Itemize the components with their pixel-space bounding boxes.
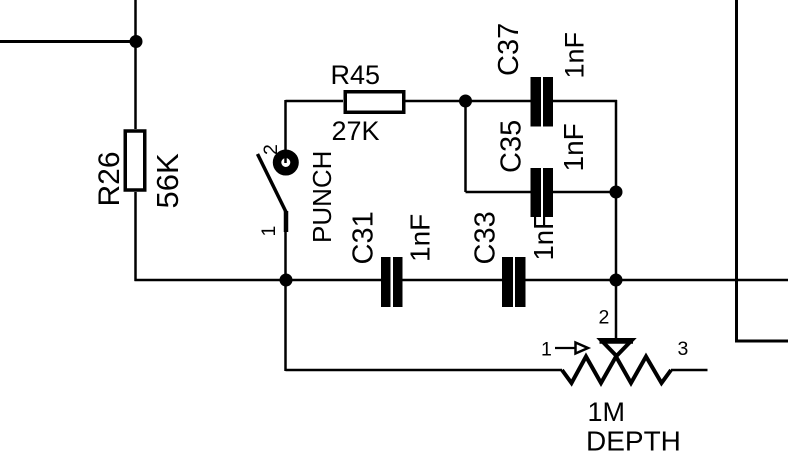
wire (615, 100, 618, 339)
wire (286, 100, 344, 103)
wire (135, 279, 382, 282)
node junction at C33 output (610, 274, 623, 287)
switch pin 1 contact (284, 211, 289, 232)
capacitor C35 (531, 168, 554, 217)
wire (526, 279, 788, 282)
wire (464, 101, 467, 192)
svg-text:DEPTH: DEPTH (586, 426, 681, 457)
svg-text:1nF: 1nF (560, 32, 590, 79)
wire (134, 0, 137, 129)
capacitor C37 (531, 77, 554, 127)
svg-text:C31: C31 (348, 211, 380, 264)
wire (466, 191, 531, 194)
IC box bottom edge (735, 340, 788, 343)
switch lever (258, 154, 287, 213)
IC box edge right (735, 0, 738, 341)
wire (284, 280, 287, 371)
svg-text:1: 1 (541, 339, 552, 361)
svg-text:2: 2 (260, 144, 282, 155)
wire (134, 192, 137, 281)
resistor R26 (125, 131, 145, 190)
svg-text:2: 2 (599, 307, 610, 329)
wire (553, 100, 617, 103)
wire (0, 40, 136, 43)
svg-text:1nF: 1nF (528, 213, 559, 260)
capacitor C31 (381, 257, 403, 307)
svg-text:C35: C35 (496, 120, 528, 173)
svg-text:R45: R45 (331, 60, 381, 90)
wire (406, 100, 531, 103)
svg-text:1M: 1M (588, 397, 626, 427)
svg-text:PUNCH: PUNCH (307, 151, 337, 243)
node junction switch bottom (280, 274, 293, 287)
node junction top-left (130, 35, 143, 48)
svg-text:27K: 27K (332, 116, 380, 146)
wire (671, 369, 708, 372)
potentiometer wiper arrow (601, 340, 632, 356)
svg-text:1: 1 (258, 226, 280, 237)
resistor R45 (345, 92, 404, 113)
node junction right of R45 (459, 95, 472, 108)
node junction C35 right (610, 186, 623, 199)
wire (553, 191, 616, 194)
wire (284, 100, 287, 163)
capacitor C33 (502, 257, 526, 307)
svg-text:1nF: 1nF (558, 123, 589, 171)
switch S PUNCH pin 2 terminal (277, 154, 295, 172)
svg-text:56K: 56K (150, 153, 185, 208)
potentiometer VR 1M DEPTH (562, 357, 671, 384)
pin 1 arrow marker (555, 347, 576, 349)
svg-text:3: 3 (678, 338, 689, 360)
svg-text:1nF: 1nF (405, 214, 436, 262)
wire (403, 279, 503, 282)
svg-text:C37: C37 (493, 23, 525, 76)
svg-text:R26: R26 (93, 151, 126, 206)
svg-text:C33: C33 (470, 211, 502, 264)
wire (286, 369, 563, 372)
wire (284, 230, 287, 280)
